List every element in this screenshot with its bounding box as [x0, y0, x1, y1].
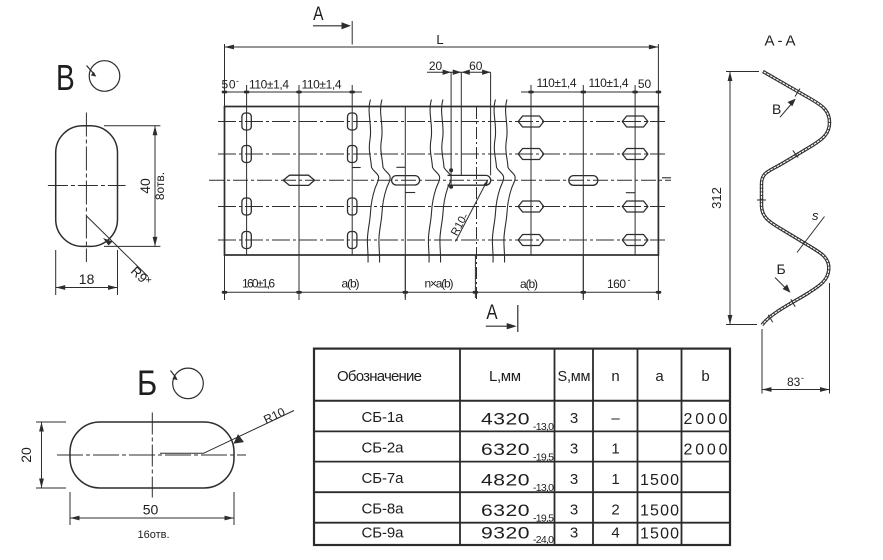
svg-text:4820: 4820: [481, 472, 530, 490]
flag mark V4: [626, 192, 636, 194]
svg-text:50: 50: [638, 77, 652, 91]
column V1 line: [246, 85, 248, 255]
middle slot H4: [569, 176, 598, 186]
svg-text:1: 1: [611, 471, 619, 488]
flag mark V2: [352, 167, 361, 169]
svg-text:-: -: [628, 275, 631, 285]
column V2 line (section plane): [351, 21, 353, 255]
vertical centerline: [85, 113, 87, 263]
svg-text:50: 50: [143, 502, 159, 518]
tick 4: [791, 299, 795, 307]
svg-text:СБ-1а: СБ-1а: [362, 409, 405, 426]
svg-text:1500: 1500: [640, 526, 679, 543]
svg-text:6320: 6320: [481, 441, 530, 459]
svg-text:-13,0: -13,0: [533, 482, 554, 494]
row centerline 4: [218, 239, 665, 241]
bottom chain dots: [222, 291, 662, 294]
left edge extension line: [224, 44, 226, 300]
dim line 20: [41, 422, 43, 488]
column H3 centerline: [476, 107, 478, 300]
L dimension line: [225, 46, 659, 48]
svg-text:18: 18: [79, 271, 95, 287]
83 extension lines: [762, 283, 830, 394]
svg-text:3: 3: [570, 502, 578, 519]
view circle with arrow: [89, 61, 120, 92]
svg-text:50: 50: [222, 77, 236, 91]
extension lines for 18: [56, 250, 118, 295]
svg-text:-24,0: -24,0: [533, 534, 554, 546]
tick 3: [757, 199, 766, 201]
svg-text:8отв.: 8отв.: [153, 172, 167, 200]
312 extension lines: [726, 72, 759, 325]
svg-text:16отв.: 16отв.: [137, 529, 169, 541]
extension dots: [449, 168, 453, 172]
svg-text:R10: R10: [261, 405, 287, 427]
svg-text:-: -: [236, 76, 239, 86]
horizontal centerline: [57, 454, 246, 456]
horizontal centerline: [48, 185, 126, 187]
table vertical lines: [460, 349, 682, 545]
view circle with arrow: [173, 368, 204, 399]
svg-text:СБ-9а: СБ-9а: [362, 525, 405, 542]
svg-text:1: 1: [611, 441, 619, 458]
svg-text:20: 20: [429, 59, 443, 73]
svg-text:110±1,4: 110±1,4: [589, 76, 629, 90]
column H2 line: [404, 107, 406, 301]
R9 arrowhead: [103, 238, 113, 246]
vertical centerline: [151, 413, 153, 498]
chain dots left: [222, 91, 661, 94]
svg-text:160: 160: [607, 277, 626, 291]
W-profile outer: [762, 72, 830, 326]
svg-text:L,мм: L,мм: [489, 368, 521, 385]
svg-text:-19,5: -19,5: [533, 513, 554, 525]
svg-text:А: А: [486, 301, 497, 324]
svg-text:СБ-7а: СБ-7а: [362, 470, 405, 487]
svg-text:110±1,4: 110±1,4: [249, 77, 289, 91]
bottom dim line: [225, 291, 659, 293]
svg-text:2000: 2000: [684, 442, 728, 459]
table horizontal lines: [314, 400, 730, 402]
R10 leader line: [160, 411, 294, 454]
svg-text:а: а: [655, 368, 664, 385]
horizontal slots column V4: [622, 116, 648, 127]
svg-text:312: 312: [709, 187, 724, 209]
row centerline 2: [218, 153, 665, 155]
break line 3a: [492, 100, 503, 263]
svg-text:-13,0: -13,0: [533, 421, 554, 433]
break line 1a: [367, 100, 378, 263]
bottom extension lines: [299, 255, 583, 298]
extension lines for 20: [36, 422, 66, 488]
middle slot H1: [283, 175, 314, 185]
break line 2a: [428, 100, 439, 263]
svg-text:2: 2: [611, 502, 619, 519]
arrow tick on circle: [171, 371, 177, 379]
tick 2: [793, 150, 798, 157]
tick 5: [768, 315, 772, 323]
arrow tick on circle: [87, 66, 95, 75]
svg-text:а(b): а(b): [520, 277, 538, 291]
svg-text:-19,5: -19,5: [533, 452, 554, 464]
R9 leader line: [86, 216, 148, 277]
tick 1: [795, 89, 800, 97]
svg-text:3: 3: [570, 441, 578, 458]
column H1 line: [298, 85, 300, 300]
beam outline: [225, 107, 659, 256]
svg-text:1500: 1500: [640, 503, 679, 520]
svg-text:СБ-2а: СБ-2а: [362, 440, 405, 457]
312 dim line: [729, 72, 731, 325]
column V3 line: [530, 85, 532, 255]
extension lines for 50: [70, 492, 234, 525]
middle slot H2: [392, 176, 420, 185]
svg-text:110±1,4: 110±1,4: [302, 77, 342, 91]
20/60 dim lines: [427, 71, 491, 73]
svg-text:n×а(b): n×а(b): [425, 277, 454, 291]
svg-text:2000: 2000: [684, 411, 728, 428]
top chain dim line right: [521, 91, 658, 93]
svg-text:3: 3: [570, 471, 578, 488]
svg-text:1500: 1500: [640, 472, 679, 489]
svg-text:В: В: [56, 58, 75, 98]
extension lines for 40: [104, 126, 160, 247]
svg-text:-: -: [801, 373, 804, 383]
R10 arrowhead: [234, 434, 245, 444]
svg-text:В: В: [772, 101, 781, 117]
svg-text:3: 3: [570, 525, 578, 542]
svg-text:R9˟: R9˟: [128, 263, 154, 289]
horizontal slots column V3: [518, 116, 544, 127]
svg-text:160±1,6: 160±1,6: [242, 277, 275, 291]
svg-text:60: 60: [469, 59, 483, 73]
svg-text:9320: 9320: [481, 525, 530, 543]
svg-text:40: 40: [137, 178, 153, 194]
W-profile inner white: [762, 72, 830, 326]
svg-text:6320: 6320: [481, 502, 530, 520]
cut slot H3: [448, 175, 491, 185]
svg-text:b: b: [701, 368, 709, 385]
svg-text:Обозначение: Обозначение: [337, 368, 422, 385]
svg-text:R10˗: R10˗: [449, 211, 471, 238]
svg-text:4320: 4320: [481, 411, 530, 429]
svg-text:3: 3: [570, 410, 578, 427]
vertical slots column V1: [242, 113, 251, 130]
svg-text:Б: Б: [137, 363, 157, 402]
svg-text:а(b): а(b): [342, 277, 360, 291]
break line 1b: [379, 100, 390, 263]
dim line 40: [154, 126, 156, 247]
vertical slots column V2: [348, 113, 357, 130]
83 dim line: [762, 389, 830, 391]
svg-text:s: s: [812, 208, 819, 223]
column V4 line: [634, 85, 636, 255]
oval hole 18x40: [56, 126, 118, 247]
table outer border: [314, 349, 730, 545]
top chain dim line left: [225, 91, 363, 93]
svg-text:Б: Б: [777, 261, 786, 277]
svg-text:СБ-8а: СБ-8а: [362, 501, 405, 518]
flag mark H2 upper: [396, 166, 405, 168]
row centerline 3: [218, 206, 665, 208]
20/60 extension lines: [451, 72, 491, 187]
svg-text:83: 83: [787, 375, 801, 389]
flag mark H2 lower: [405, 192, 415, 194]
row centerline 1: [218, 121, 665, 123]
dim line 18: [56, 287, 118, 289]
svg-text:4: 4: [611, 525, 619, 542]
svg-text:S,мм: S,мм: [558, 369, 591, 385]
svg-text:L: L: [436, 32, 443, 47]
oval hole 50x20: [70, 422, 234, 488]
column H4 line: [582, 85, 584, 300]
dim line 50: [70, 517, 234, 519]
break line 3b: [504, 100, 515, 263]
svg-text:А: А: [313, 3, 324, 25]
W-profile hatch ribs: [762, 72, 830, 326]
break line 2b: [440, 100, 451, 263]
right edge extension line: [657, 44, 659, 300]
svg-text:n: n: [611, 368, 619, 385]
flag mark right edge: [662, 177, 671, 179]
svg-text:20: 20: [18, 447, 34, 463]
svg-text:110±1,4: 110±1,4: [537, 76, 577, 90]
middle centerline: [209, 179, 671, 181]
svg-text:–: –: [611, 410, 620, 427]
svg-text:А-А: А-А: [765, 33, 796, 50]
R10 leader in beam: [456, 181, 488, 242]
